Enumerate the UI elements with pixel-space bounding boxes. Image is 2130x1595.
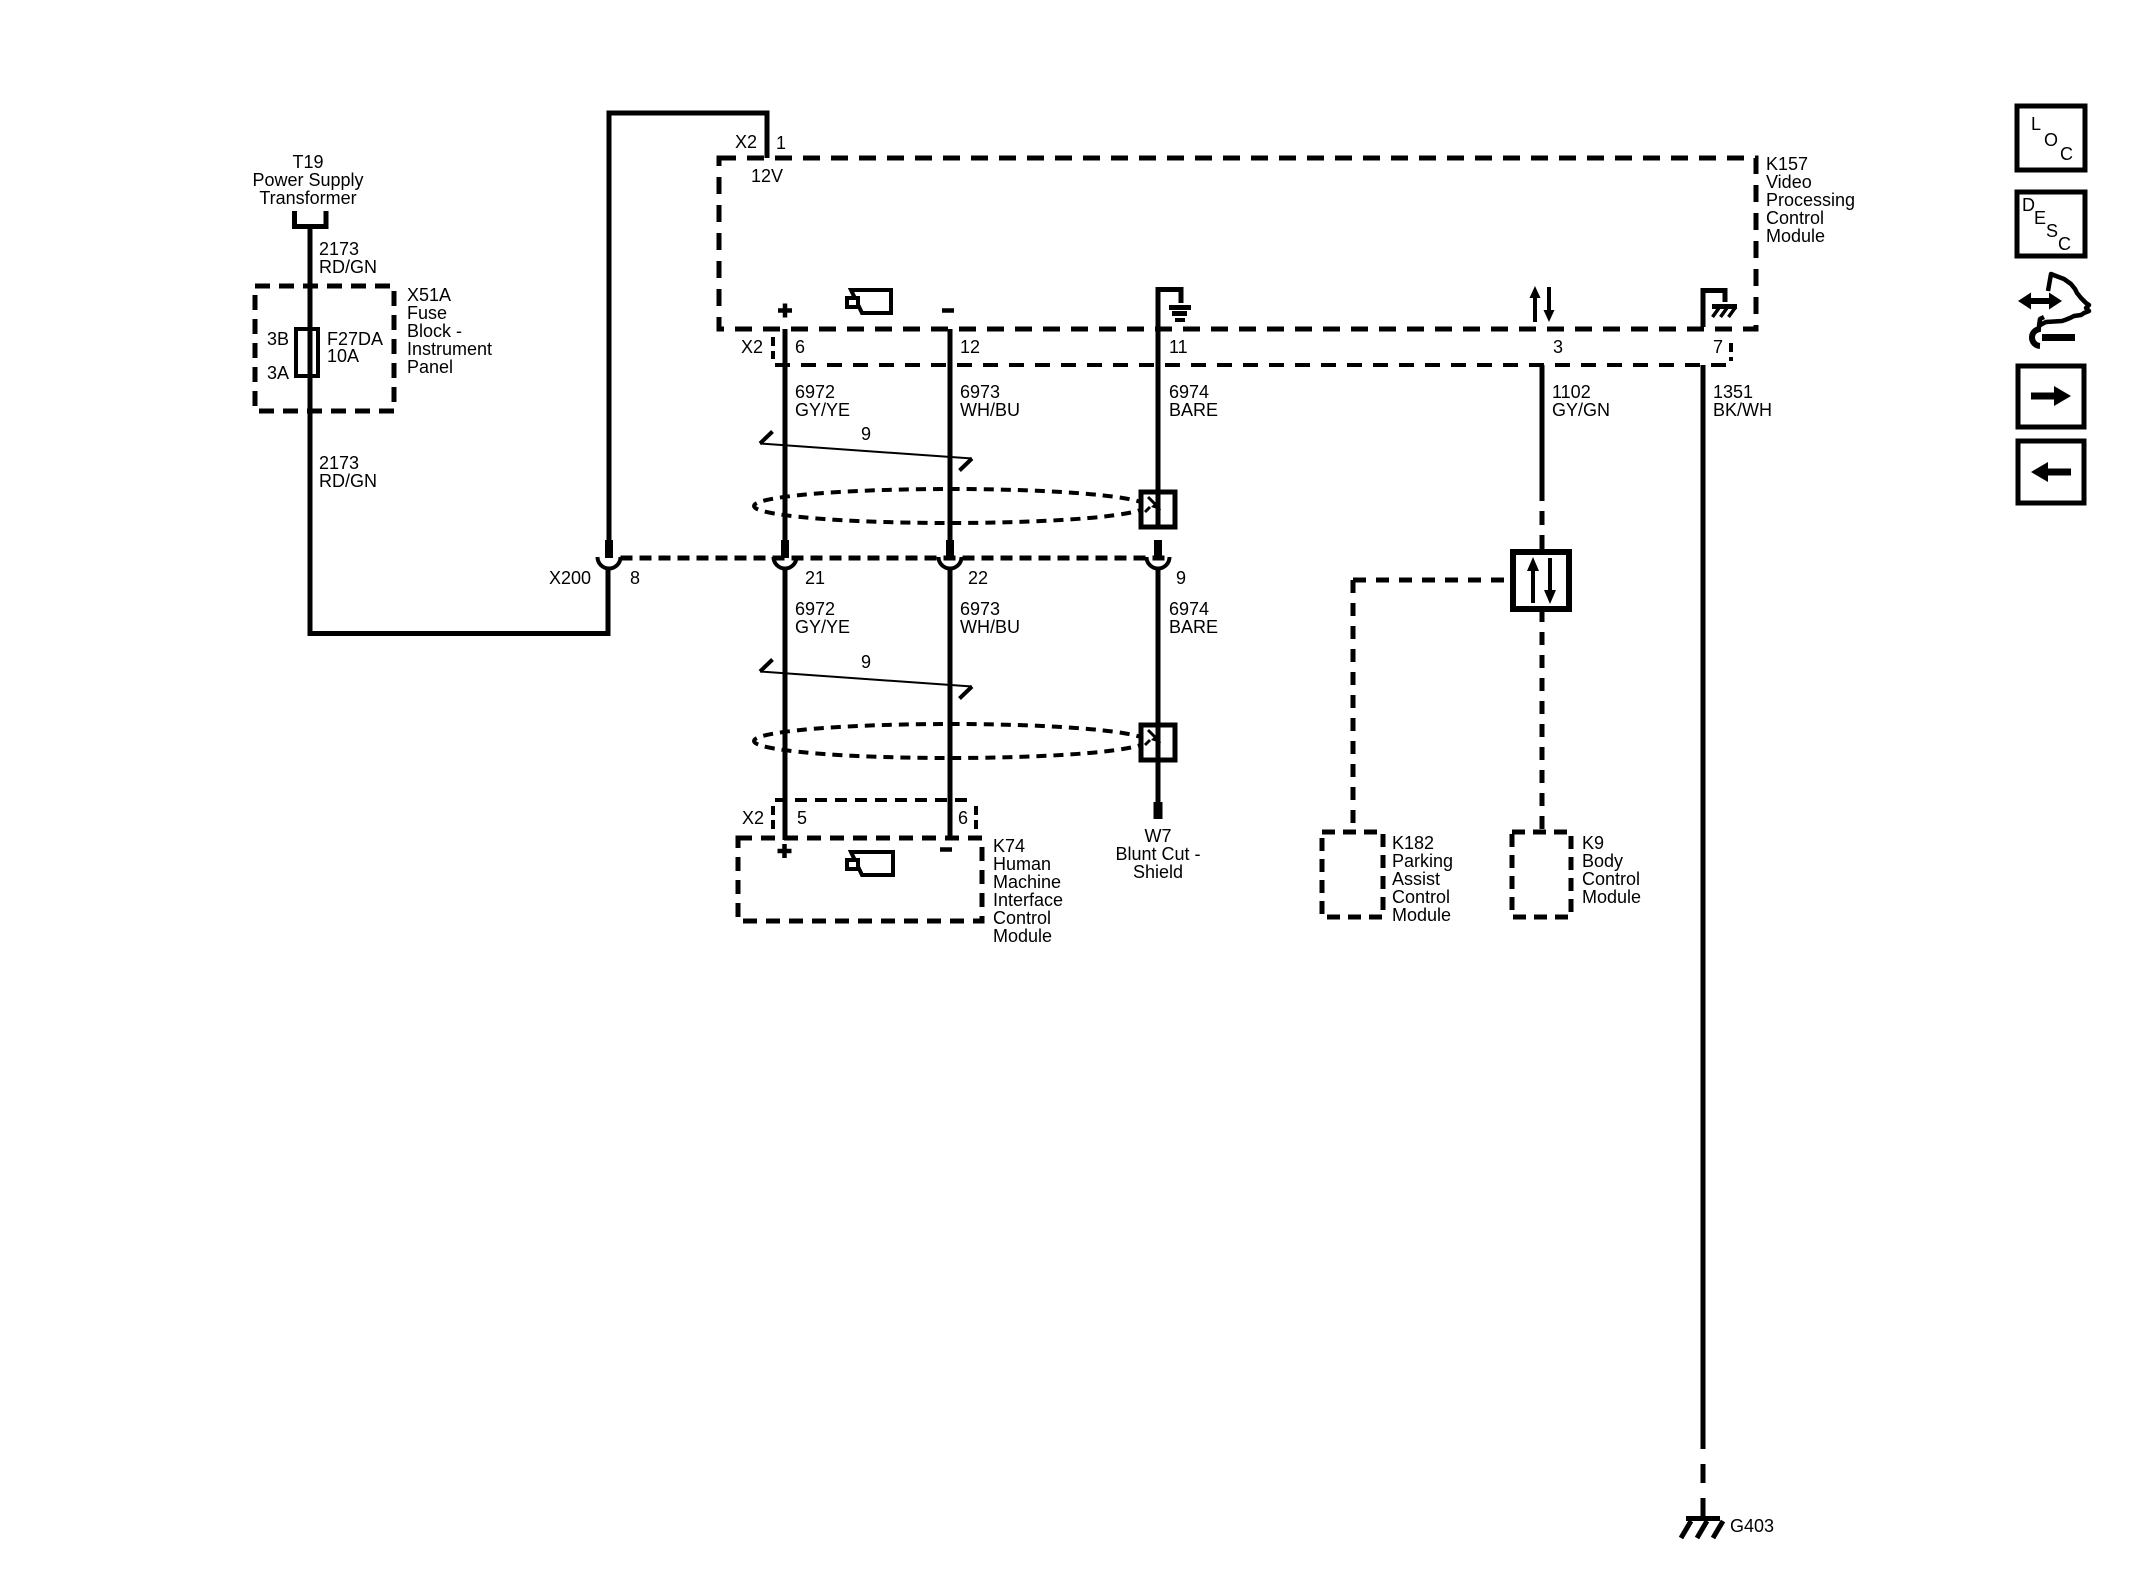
- label K74 Human Machine Interface Control Module: [993, 836, 1063, 946]
- wire 6973 WH/BU upper: [948, 329, 953, 542]
- connector X2 pin strip of K157: [775, 363, 1735, 367]
- svg-text:8: 8: [630, 568, 640, 588]
- connector X200 line: [621, 556, 1168, 561]
- svg-text:WH/BU: WH/BU: [960, 617, 1020, 637]
- wire 6972 GY/YE lower: [783, 568, 788, 840]
- svg-text:RD/GN: RD/GN: [319, 471, 377, 491]
- connector X200 terminal 9 male: [1154, 540, 1162, 558]
- shield termination box upper: [1141, 492, 1175, 527]
- svg-text:X2: X2: [741, 337, 763, 357]
- svg-text:6973: 6973: [960, 382, 1000, 402]
- connector X2 left tick: [771, 337, 775, 359]
- svg-text:Transformer: Transformer: [259, 188, 356, 208]
- svg-text:Control: Control: [1582, 869, 1640, 889]
- svg-text:Control: Control: [1392, 887, 1450, 907]
- wire 1351 dashed to ground: [1701, 1430, 1706, 1516]
- label X51A Fuse Block - Instrument Panel: [407, 285, 492, 377]
- svg-text:9: 9: [861, 424, 871, 444]
- wire 6974 BARE shield upper: [1156, 287, 1161, 494]
- svg-text:GY/GN: GY/GN: [1552, 400, 1610, 420]
- svg-text:Panel: Panel: [407, 357, 453, 377]
- label K9 Body Control Module: [1582, 833, 1641, 907]
- serial data arrows at K157 pin 3: [1530, 286, 1555, 322]
- twisted pair marker upper: [760, 432, 972, 471]
- svg-text:Parking: Parking: [1392, 851, 1453, 871]
- ground hook at K157 pin 11: [1158, 290, 1181, 328]
- svg-text:6972: 6972: [795, 382, 835, 402]
- minus symbol at K157 pin 12: [942, 308, 954, 313]
- svg-text:11: 11: [1169, 337, 1188, 357]
- svg-text:6: 6: [958, 808, 968, 828]
- svg-text:GY/YE: GY/YE: [795, 400, 850, 420]
- svg-text:K74: K74: [993, 836, 1025, 856]
- transformer T19 symbol: [295, 211, 327, 227]
- svg-text:O: O: [2044, 130, 2058, 150]
- svg-text:3A: 3A: [267, 363, 289, 383]
- label K182 Parking Assist Control Module: [1392, 833, 1453, 925]
- shield termination box lower: [1141, 725, 1175, 760]
- wire 1102 dashed to serial gateway: [1540, 487, 1545, 552]
- svg-text:Module: Module: [993, 926, 1052, 946]
- svg-text:T19: T19: [292, 152, 323, 172]
- svg-text:Power Supply: Power Supply: [252, 170, 363, 190]
- value label 6974 BARE (upper): [1169, 382, 1218, 420]
- speaker icon inside K74: [847, 852, 893, 875]
- wire 1102 GY/GN solid: [1540, 365, 1545, 487]
- svg-text:RD/GN: RD/GN: [319, 257, 377, 277]
- svg-text:2173: 2173: [319, 453, 359, 473]
- svg-text:6974: 6974: [1169, 382, 1209, 402]
- value label F27DA 10A: [327, 329, 383, 366]
- value label 1351 BK/WH: [1713, 382, 1772, 420]
- svg-text:12V: 12V: [751, 166, 783, 186]
- earth ground symbol at pin 11: [1169, 308, 1191, 321]
- value label 6973 WH/BU (upper): [960, 382, 1020, 420]
- svg-text:3B: 3B: [267, 329, 289, 349]
- wire rising to X200: [606, 568, 611, 634]
- value label 6972 GY/YE (lower): [795, 599, 850, 637]
- svg-text:9: 9: [861, 652, 871, 672]
- svg-text:K157: K157: [1766, 154, 1808, 174]
- svg-text:X200: X200: [549, 568, 591, 588]
- chassis ground symbol at pin 7: [1712, 307, 1737, 318]
- plus symbol at K157 pin 6: [778, 304, 792, 318]
- module K157 box: [719, 158, 1756, 329]
- module K74 box: [738, 838, 982, 921]
- svg-text:22: 22: [968, 568, 988, 588]
- transformer T19 label: [252, 152, 363, 208]
- value label 6972 GY/YE (upper): [795, 382, 850, 420]
- connector X200 terminal 22 male: [946, 540, 954, 558]
- wire bottom horizontal run: [308, 631, 611, 636]
- wire top horizontal run: [607, 111, 770, 116]
- ground G403 symbol: [1681, 1519, 1723, 1539]
- wire W7 blunt cut tail: [1156, 760, 1161, 803]
- wire 1351 BK/WH solid: [1701, 365, 1706, 1430]
- svg-text:Video: Video: [1766, 172, 1812, 192]
- shield ellipse upper: [754, 489, 1146, 523]
- svg-text:Block -: Block -: [407, 321, 462, 341]
- icon box LOC: [2017, 106, 2085, 170]
- connector X2 right tick: [1729, 343, 1733, 361]
- svg-text:Human: Human: [993, 854, 1051, 874]
- connector X200 terminal 22 female: [939, 557, 962, 569]
- svg-text:10A: 10A: [327, 346, 359, 366]
- icon data-link diagnostic: [2018, 274, 2089, 346]
- fuse F27DA: [296, 329, 318, 376]
- svg-text:2173: 2173: [319, 239, 359, 259]
- blunt cut end cap W7: [1154, 802, 1163, 819]
- label K157 Video Processing Control Module: [1766, 154, 1855, 246]
- svg-text:S: S: [2046, 221, 2058, 241]
- svg-text:X2: X2: [742, 808, 764, 828]
- shield ellipse lower: [754, 724, 1146, 758]
- dashed wire from gateway to K9: [1540, 609, 1545, 834]
- svg-text:6974: 6974: [1169, 599, 1209, 619]
- svg-text:E: E: [2034, 208, 2046, 228]
- wire 6972 GY/YE upper: [783, 329, 788, 542]
- svg-text:C: C: [2058, 234, 2071, 254]
- plus symbol at K74 pin 5: [778, 844, 792, 858]
- wire into K157 pin X2-1: [765, 113, 770, 158]
- icon box DESC: [2017, 192, 2085, 256]
- dashed branch to K182 vertical: [1351, 580, 1356, 834]
- fuse block X51A box: [255, 286, 394, 411]
- svg-text:K182: K182: [1392, 833, 1434, 853]
- svg-text:WH/BU: WH/BU: [960, 400, 1020, 420]
- connector X2 strip of K74: [775, 798, 975, 802]
- value label 2173 RD/GN (upper): [319, 239, 377, 277]
- svg-text:Module: Module: [1766, 226, 1825, 246]
- connector X2 right tick (K74): [974, 806, 978, 830]
- minus symbol at K74 pin 6: [940, 847, 952, 852]
- svg-text:Fuse: Fuse: [407, 303, 447, 323]
- svg-text:G403: G403: [1730, 1516, 1774, 1536]
- value label 2173 RD/GN (lower): [319, 453, 377, 491]
- svg-text:Machine: Machine: [993, 872, 1061, 892]
- svg-text:W7: W7: [1145, 826, 1172, 846]
- svg-text:6: 6: [795, 337, 805, 357]
- label W7 Blunt Cut - Shield: [1115, 826, 1200, 882]
- wire 6973 WH/BU lower: [948, 568, 953, 840]
- svg-text:Interface: Interface: [993, 890, 1063, 910]
- connector X200 terminal 21 female: [774, 557, 797, 569]
- svg-text:1351: 1351: [1713, 382, 1753, 402]
- wire 6974 BARE shield lower: [1156, 568, 1161, 727]
- icon box arrow right: [2018, 366, 2084, 427]
- svg-text:L: L: [2031, 114, 2041, 134]
- svg-text:12: 12: [960, 337, 980, 357]
- svg-text:1102: 1102: [1552, 382, 1591, 402]
- svg-text:X51A: X51A: [407, 285, 451, 305]
- svg-text:9: 9: [1176, 568, 1186, 588]
- icon box arrow left: [2018, 441, 2084, 503]
- svg-text:X2: X2: [735, 132, 757, 152]
- svg-text:C: C: [2060, 144, 2073, 164]
- svg-text:Control: Control: [1766, 208, 1824, 228]
- dashed branch to K182 horizontal: [1353, 578, 1513, 583]
- svg-text:Module: Module: [1582, 887, 1641, 907]
- connector X2 left tick (K74): [771, 806, 775, 830]
- connector X200 terminal pin 8 female: [598, 557, 621, 569]
- connector X200 terminal pin 8 male: [605, 540, 613, 558]
- svg-text:BK/WH: BK/WH: [1713, 400, 1772, 420]
- svg-text:6973: 6973: [960, 599, 1000, 619]
- serial data gateway box: [1513, 552, 1569, 609]
- svg-text:3: 3: [1553, 337, 1563, 357]
- connector X200 terminal 21 male: [781, 540, 789, 558]
- module K9 box: [1512, 832, 1571, 917]
- svg-text:7: 7: [1713, 337, 1723, 357]
- connector X200 terminal 9 female: [1147, 557, 1170, 569]
- module K182 box: [1322, 832, 1383, 917]
- value label 1102 GY/GN: [1552, 382, 1610, 420]
- wire 2173 RD/GN from T19 through fuse to bottom corner: [308, 227, 313, 634]
- svg-text:Control: Control: [993, 908, 1051, 928]
- svg-text:Blunt Cut -: Blunt Cut -: [1115, 844, 1200, 864]
- svg-text:6972: 6972: [795, 599, 835, 619]
- svg-text:GY/YE: GY/YE: [795, 617, 850, 637]
- value label 6974 BARE (lower): [1169, 599, 1218, 637]
- ground hook at K157 pin 7: [1703, 291, 1725, 328]
- speaker icon inside K157: [847, 290, 891, 313]
- svg-text:BARE: BARE: [1169, 617, 1218, 637]
- svg-text:Assist: Assist: [1392, 869, 1440, 889]
- svg-text:Instrument: Instrument: [407, 339, 492, 359]
- svg-text:Body: Body: [1582, 851, 1623, 871]
- svg-text:Processing: Processing: [1766, 190, 1855, 210]
- svg-text:K9: K9: [1582, 833, 1604, 853]
- svg-text:1: 1: [776, 133, 786, 153]
- value label 6973 WH/BU (lower): [960, 599, 1020, 637]
- twisted pair marker lower: [760, 660, 972, 699]
- svg-text:Module: Module: [1392, 905, 1451, 925]
- wire from X200 up to top run: [607, 113, 612, 542]
- svg-text:21: 21: [805, 568, 825, 588]
- svg-text:BARE: BARE: [1169, 400, 1218, 420]
- svg-text:Shield: Shield: [1133, 862, 1183, 882]
- svg-text:5: 5: [797, 808, 807, 828]
